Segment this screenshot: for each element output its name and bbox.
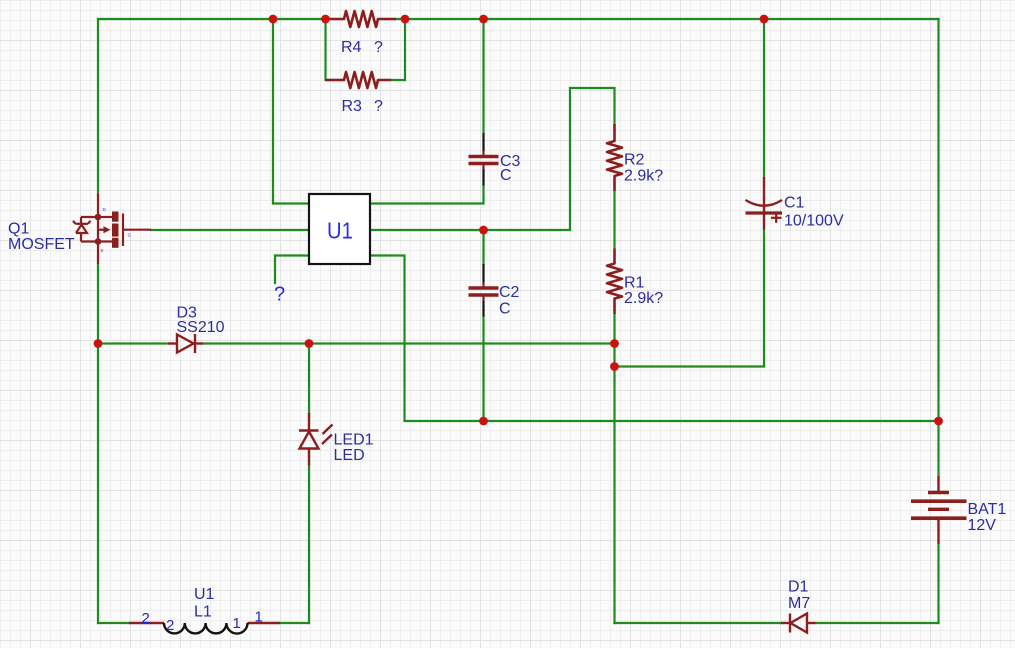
svg-text:R2: R2 xyxy=(624,152,645,169)
transistor Q1 MOSFET xyxy=(73,194,151,264)
junction node R4 left xyxy=(321,15,330,24)
wire R1 junction to C1 bottom xyxy=(615,230,765,367)
junction node lower rail right xyxy=(934,417,943,426)
svg-text:1: 1 xyxy=(233,615,241,632)
wire top rail left segment xyxy=(98,18,330,20)
inductor L1 xyxy=(129,622,280,624)
wire U1 left bottom pin stub xyxy=(275,256,309,284)
diode D3 xyxy=(168,334,203,353)
svg-text:D: D xyxy=(103,207,107,212)
resistor R1 xyxy=(607,249,622,315)
wire mid vertical LED1 branch upper xyxy=(308,344,310,414)
junction node C2 top xyxy=(479,226,488,235)
svg-text:LED1: LED1 xyxy=(334,432,374,449)
svg-text:?: ? xyxy=(374,98,383,115)
wire inductor L1 to mid bottom vertical xyxy=(280,622,309,624)
svg-text:MOSFET: MOSFET xyxy=(8,236,75,253)
svg-text:?: ? xyxy=(274,284,285,306)
svg-text:1: 1 xyxy=(255,609,263,626)
junction node R1 bottom xyxy=(610,339,619,348)
svg-text:C: C xyxy=(500,167,512,184)
junction node LED branch xyxy=(305,339,314,348)
resistor R2 xyxy=(607,124,622,191)
junction node C3 top xyxy=(479,15,488,24)
wire bottom left to inductor L1 xyxy=(98,622,129,624)
wire right vertical top rail to BAT1 xyxy=(937,19,939,476)
wire bottom rail right of D1 xyxy=(816,622,939,624)
wire node to U1 left top pin xyxy=(273,19,309,204)
capacitor C1 polarized xyxy=(746,177,783,230)
svg-text:12V: 12V xyxy=(968,517,997,534)
svg-text:D1: D1 xyxy=(788,579,809,596)
svg-text:Q1: Q1 xyxy=(8,221,29,238)
svg-text:2: 2 xyxy=(142,610,150,627)
capacitor C2 xyxy=(469,264,499,317)
wire U1 right middle pin to R2 top xyxy=(370,88,615,230)
wire bottom rail left of D1 xyxy=(615,622,782,624)
svg-text:U1: U1 xyxy=(194,586,215,603)
svg-text:2.9k?: 2.9k? xyxy=(624,290,663,307)
wire D3 rail right xyxy=(203,342,615,344)
wire mid vertical LED1 branch lower xyxy=(308,465,310,623)
svg-text:C: C xyxy=(499,301,511,318)
capacitor C3 xyxy=(469,133,499,186)
resistor R4 xyxy=(330,11,396,27)
junction node R4 right xyxy=(401,15,410,24)
svg-text:R3: R3 xyxy=(342,98,363,115)
wire top rail right segment xyxy=(396,18,939,20)
wire D3 rail left xyxy=(98,342,168,344)
svg-text:2.9k?: 2.9k? xyxy=(624,168,663,185)
svg-text:R4: R4 xyxy=(341,39,362,56)
svg-text:L1: L1 xyxy=(194,604,212,621)
wire C2 bottom to lower rail xyxy=(482,317,484,422)
junction node D3 rail left xyxy=(94,339,103,348)
svg-text:M7: M7 xyxy=(788,595,810,612)
wire Q1 gate to U1 left middle pin xyxy=(151,229,309,231)
battery BAT1 xyxy=(911,476,967,544)
svg-text:BAT1: BAT1 xyxy=(968,501,1007,518)
svg-text:2: 2 xyxy=(166,617,174,634)
junction node C1 top xyxy=(760,15,769,24)
svg-text:LED: LED xyxy=(334,447,365,464)
wire R1 bottom through junctions down to bottom rail xyxy=(613,314,615,623)
svg-text:S: S xyxy=(101,248,104,253)
wire C3 top lead from top rail xyxy=(482,19,484,133)
wire R4 R3 right vertical xyxy=(390,19,405,80)
wire left vertical from top rail to Q1 drain xyxy=(97,19,99,194)
svg-text:U1: U1 xyxy=(327,217,353,243)
wire R2 bottom to R1 top xyxy=(613,191,615,249)
svg-text:10/100V: 10/100V xyxy=(784,213,844,230)
svg-text:SS210: SS210 xyxy=(177,319,225,336)
svg-text:C2: C2 xyxy=(499,284,520,301)
wire C1 top to top rail xyxy=(763,19,765,177)
wire R4 R3 left vertical xyxy=(326,19,345,80)
wire C3 bottom to U1 right top pin xyxy=(370,186,484,204)
junction node C2 bottom xyxy=(479,417,488,426)
svg-text:G: G xyxy=(128,233,132,238)
wire Q1 source down to D3 rail and bottom left corner xyxy=(97,264,99,623)
junction node top rail x273 xyxy=(269,15,278,24)
svg-text:?: ? xyxy=(374,39,383,56)
junction node C1 branch xyxy=(610,362,619,371)
svg-text:C1: C1 xyxy=(784,195,805,212)
wire BAT1 bottom to bottom rail xyxy=(937,544,939,623)
resistor R3 xyxy=(326,72,392,88)
IC U1 box xyxy=(309,194,370,264)
svg-text:R1: R1 xyxy=(624,275,645,292)
wire C2 top from junction xyxy=(482,230,484,264)
wire U1 right bottom pin down to lower rail xyxy=(370,256,939,422)
diode D1 xyxy=(781,614,816,633)
LED LED1 xyxy=(299,413,333,465)
